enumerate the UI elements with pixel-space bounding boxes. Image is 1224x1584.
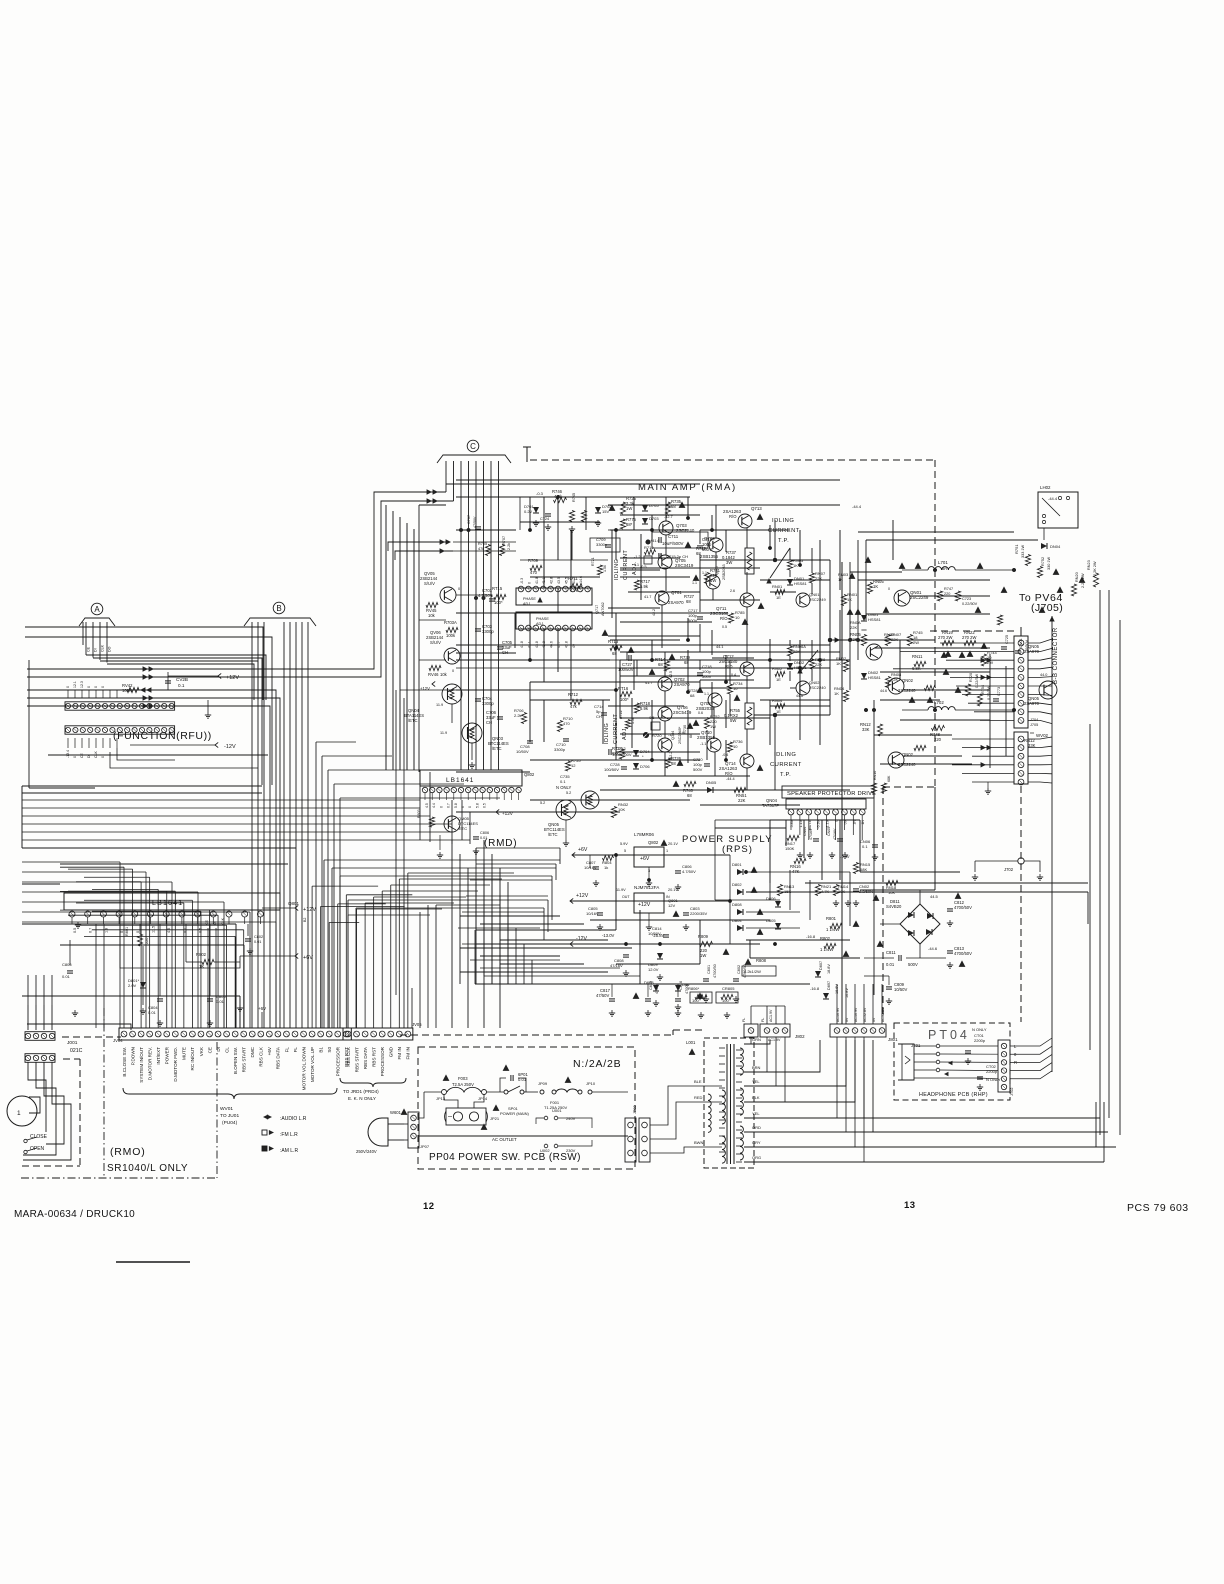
resistor R707B 47k [485,545,490,556]
inductor L701 [928,567,955,570]
dashed transformer box [704,1038,754,1168]
resistor R719 1k [645,549,656,554]
wires into WV02 [952,738,1014,740]
svg-text:/ETC: /ETC [548,832,558,837]
junction dots output [933,568,937,572]
wire left vert pair down [395,690,397,995]
output rail to L701 [830,639,935,641]
svg-text:47/50V: 47/50V [596,993,609,998]
diode D705 [642,505,648,511]
diode DN02 HSS81 [861,673,867,679]
svg-text:R707: R707 [502,536,506,545]
svg-text:D801: D801 [732,862,742,867]
resistor R706 2.2k [521,713,526,724]
svg-text:POWER: POWER [165,1046,170,1064]
diode DN04 [1041,543,1047,549]
brace WV01 [123,1088,337,1099]
bus wire B-B left [989,654,991,768]
svg-text:-13.4: -13.4 [66,750,70,758]
capacitor C707 47/50V [475,526,481,528]
resistor RV42 100K [127,687,139,692]
svg-text:44.6: 44.6 [796,694,803,698]
wire long horiz y876 [340,875,552,877]
svg-text:1K: 1K [793,563,798,568]
svg-text:10K: 10K [618,807,625,812]
svg-text:-44.4: -44.4 [1048,496,1058,501]
transistor QN01 2SC2249 [894,590,910,606]
svg-text:0.6: 0.6 [698,711,703,715]
resistor RN02 1E [775,671,785,676]
connector J001 row1 [25,1032,55,1041]
resistor R802 1K [202,959,214,964]
svg-text:N ONLY: N ONLY [986,1077,1001,1082]
svg-text:100*: 100* [620,697,629,702]
svg-text:1E: 1E [776,677,781,682]
transformer T801 core [726,1044,728,1164]
resistor R740 68 [684,781,696,786]
svg-text:/ETC: /ETC [408,718,418,723]
svg-text:68K: 68K [860,867,867,872]
zener D809 12.0V [657,953,663,959]
node A [91,603,103,615]
resistor RN12 33K [914,745,926,750]
svg-text:12.1: 12.1 [73,681,77,688]
svg-text:3300p: 3300p [482,701,494,706]
trimmer box R720 [651,722,660,730]
svg-text:R801: R801 [826,916,837,921]
svg-text:CV2B: CV2B [176,677,188,682]
svg-text:1.1V: 1.1V [799,819,803,827]
svg-text:J001: J001 [67,1040,78,1046]
svg-text:JP07: JP07 [420,1144,430,1149]
svg-text:D705: D705 [649,503,659,508]
mechanism motor circle [7,1096,37,1126]
svg-text:NJM7812FA: NJM7812FA [634,885,660,890]
capacitor C708 10/50V [527,740,533,742]
svg-text:2W: 2W [913,640,919,645]
svg-text:100: 100 [722,998,729,1003]
transistor Q701 2SA970 [655,591,669,605]
svg-text:J702: J702 [1004,867,1014,872]
svg-text:ORD: ORD [752,1125,761,1130]
svg-text:/ETC: /ETC [492,746,502,751]
svg-text:0: 0 [452,669,454,673]
svg-text:4700/50V: 4700/50V [954,905,972,910]
svg-text:+6V: +6V [258,1006,266,1011]
jumper J702 [1018,858,1024,864]
svg-text:68: 68 [671,761,676,766]
svg-text:4700p: 4700p [655,983,659,994]
svg-text:0.22/50V: 0.22/50V [962,602,978,606]
resistor R752 220 1W [704,718,709,729]
resistor RN10 68K pair [871,783,876,793]
svg-text:L78MR06: L78MR06 [634,832,654,837]
resistor R775 68 [620,519,625,529]
transistor Q708 2SB2033 [708,693,722,707]
svg-text:RBS RST: RBS RST [371,1047,376,1067]
transistor Q710 2SB1355 [707,738,721,752]
svg-text:(J705): (J705) [1031,602,1063,614]
resistor RN23 2.2K 2W [1093,573,1098,587]
svg-text:2SC2240: 2SC2240 [898,762,916,767]
diode D704 [633,750,639,756]
wire amp left frame [418,505,420,772]
svg-text:D.MOTOR REV.: D.MOTOR REV. [147,1047,152,1080]
svg-text:N:/2A/2B: N:/2A/2B [573,1058,621,1070]
svg-text:240V: 240V [566,1116,576,1121]
wire bus y690 [27,690,276,1028]
resistor R712 47k [570,699,582,704]
connector JT02 [998,1040,1010,1092]
transistor Q706 2SC5419 [658,707,672,721]
svg-text:0.01: 0.01 [216,999,225,1004]
svg-text:(PU04): (PU04) [222,1120,238,1126]
resistor R703A 100k [446,627,458,632]
svg-text:HEADPHONE PCB (RHP): HEADPHONE PCB (RHP) [919,1092,988,1098]
resistor R736 10 [727,742,732,752]
wire stubs power supply [615,855,617,930]
svg-text:0.01: 0.01 [886,962,895,967]
capacitor C727 100/50V [628,655,630,661]
svg-text:10/16V: 10/16V [586,911,599,916]
wire left extra horizontals [22,785,262,787]
svg-text:(RMO): (RMO) [110,1146,146,1158]
wires into JV04 strip [123,867,125,1028]
svg-text:5.2: 5.2 [566,791,571,795]
svg-text:22K: 22K [891,637,898,642]
svg-text:22K: 22K [738,798,746,803]
jack contacts [936,1044,940,1048]
svg-text:43.5: 43.5 [557,577,561,584]
transistor Q702 2SA970 lower [658,677,672,691]
transistor QN05 BTC114ES [556,800,576,820]
svg-text:RN01: RN01 [772,584,783,589]
svg-text:0.2V: 0.2V [524,509,533,514]
rail y883 [805,882,1088,884]
resistor R751 220 1W [704,573,709,584]
resistor R745 pair [569,511,574,522]
svg-text:11.9V: 11.9V [616,888,626,892]
svg-text:4.5: 4.5 [167,928,171,933]
dashed box PP04 [418,1047,635,1169]
svg-text:44.0: 44.0 [1040,673,1047,677]
svg-text:2200/35V: 2200/35V [690,911,707,916]
svg-text:TA7317P: TA7317P [762,803,779,808]
fuse F001 T1.25A 250V [552,1090,556,1094]
svg-text:42.8: 42.8 [550,577,554,584]
resistor RN08 22K b [809,659,814,669]
svg-text:-42.2: -42.2 [669,752,673,760]
svg-text:44.5: 44.5 [930,894,939,899]
wire pair to amp y542 [388,542,446,551]
wire bus y698 [27,698,280,1028]
brace TO JRD1 [340,1078,406,1087]
wires JT02 to bus [1010,1038,1052,1046]
svg-text:5: 5 [624,849,626,853]
wire PS verticals extra [475,848,477,930]
svg-text:10/50V: 10/50V [648,931,661,936]
svg-text:D703: D703 [649,516,659,521]
svg-text:CLK: CLK [101,644,105,652]
svg-text:MUTE: MUTE [182,1047,187,1060]
resistor RN08 22K [885,677,890,688]
connector JV05 [343,1028,413,1040]
svg-text:R705: R705 [478,542,487,546]
wire amp to strip x436 [435,905,437,1028]
transistor QN05b 2SA970 [1039,681,1057,699]
resistor R717 5.9k [634,580,639,590]
svg-text:2SB2033: 2SB2033 [722,564,726,580]
transformer secondary winding 3 [740,1126,743,1160]
wires transformer primary [650,1086,722,1125]
svg-text:22K: 22K [850,625,857,630]
resistor R809 220 1W [700,941,713,946]
svg-text:4.7K: 4.7K [821,889,830,894]
svg-text:Q802: Q802 [648,840,659,845]
svg-text:RBS START: RBS START [354,1047,359,1073]
svg-text:0.01: 0.01 [480,836,487,840]
svg-text:DI: DI [94,648,98,652]
transistor Q709 2SB1355 [709,538,723,552]
svg-text:0: 0 [527,582,531,584]
svg-text:2SC2249*: 2SC2249* [678,726,682,744]
triangle markers right bus [847,608,854,614]
dash boundary J001 [62,1036,121,1038]
svg-text:+12V: +12V [576,893,589,899]
svg-text:4700/50: 4700/50 [713,964,717,978]
wire PS extra rails [476,847,560,849]
svg-text:R808: R808 [756,958,767,963]
svg-text:0.7: 0.7 [447,803,451,808]
capacitor CV2B 0.1 [165,680,171,682]
wire bottom rail [475,983,810,985]
resistor RV45 10k [426,602,438,607]
resistor R752 330 1W [1037,567,1042,578]
wire diag bundle lower left [22,861,120,863]
svg-text:0.5: 0.5 [483,803,487,808]
wire function right frame [261,700,263,785]
capacitor C711 10uF/500V [658,537,660,543]
wire left extra verticals [235,924,237,1028]
svg-text:BRN: BRN [752,1065,761,1070]
svg-text:(RPS): (RPS) [722,844,753,855]
wire amp stubs extra [665,497,667,521]
svg-text:22K: 22K [815,576,822,581]
svg-text:1E: 1E [884,637,889,642]
svg-text:500V: 500V [908,962,918,967]
transformer secondary winding 2 [740,1088,743,1115]
svg-text:R752: R752 [1041,557,1045,566]
svg-text:-12V: -12V [576,936,587,942]
resistor RN22 270 2W [964,640,976,645]
svg-text::AM L.R: :AM L.R [280,1148,298,1154]
svg-text:RBS START: RBS START [242,1047,247,1073]
wire QN04 pins down [790,815,792,830]
wire verticals x386-414 [385,505,387,770]
capacitor C812 4700/50V [947,908,953,910]
wire U001 link [568,1118,592,1128]
legend AUDIO L.R [267,1114,272,1119]
wire bundle under amp [451,840,453,1028]
wire To PV64 vertical [1051,624,1053,1072]
svg-text:WV02: WV02 [1036,733,1049,738]
svg-text:20.1V: 20.1V [668,842,678,846]
svg-text:S/U/V: S/U/V [430,640,441,645]
resistor R726 68 [665,758,670,768]
grounds -12V [625,970,627,973]
svg-text:MOTOR VOL.DOWN: MOTOR VOL.DOWN [301,1047,306,1090]
svg-text:PCS 79 603: PCS 79 603 [1127,1202,1189,1214]
transistor Q714 2SA1263 lower [740,754,754,768]
svg-text:R/O: R/O [720,616,728,621]
+12V arrow LB [295,905,298,910]
svg-text:CE: CE [87,646,91,652]
svg-text:2SC3419: 2SC3419 [675,563,694,568]
wire GRN short [744,1040,770,1044]
resistor R720 group right [965,684,970,696]
svg-text:-44.4: -44.4 [726,777,735,781]
wire riser x548 [543,908,545,940]
svg-text:RBS CLK: RBS CLK [259,1046,264,1067]
svg-text:2200p: 2200p [974,1038,986,1043]
wire RFU lower links [117,748,175,760]
transformer extra turns [719,1047,725,1049]
svg-text:1: 1 [666,849,668,853]
resistor R746 4.7k [554,497,567,502]
svg-text:0.1: 0.1 [178,683,185,688]
svg-text:1.1: 1.1 [704,692,709,696]
svg-text:J802: J802 [795,1034,805,1039]
svg-text:100/50V: 100/50V [604,767,619,772]
wire bundle B [251,622,253,1028]
svg-text:10: 10 [735,615,740,620]
svg-text:RN23: RN23 [1087,560,1091,570]
connector JP02 dual [625,1118,636,1162]
svg-text:PHASE: PHASE [536,617,549,621]
svg-text:1W: 1W [626,506,632,511]
svg-text:0: 0 [136,931,140,933]
svg-text:INT/EXT: INT/EXT [156,1047,161,1065]
wire horizontals under amp [460,915,560,917]
capacitor C719 100p 500V [697,545,703,547]
svg-text:500V: 500V [702,674,712,679]
connector JP07 [408,1112,419,1148]
resistor R748 220 [932,725,945,730]
svg-text:4.5: 4.5 [425,803,429,808]
wires speaker protector [769,828,771,883]
+12V arrow RFU [218,673,221,678]
svg-text:021C: 021C [70,1048,83,1054]
svg-text:D802: D802 [732,882,742,887]
svg-text:10K: 10K [888,890,895,895]
wire right bus to J801 [849,1004,851,1006]
resistor RN06A 22K [787,646,792,656]
wire stubs main amp vertical [529,497,531,530]
svg-text:S0: S0 [327,1047,332,1053]
pins LB1641 left [69,911,75,917]
svg-text:VKK: VKK [199,1046,204,1056]
svg-text:44.1: 44.1 [716,645,723,649]
AC outlet [446,1108,486,1125]
svg-text:220: 220 [934,737,942,742]
-12V arrow RFU [215,742,218,747]
connector WV02 [1014,732,1028,784]
resistor R751 333 1W [1025,555,1030,566]
capacitor C805 0.01 [207,998,213,1000]
svg-text:R719: R719 [644,545,654,550]
capacitor C802b [733,978,739,980]
resistor R710 470 [557,721,562,732]
resistor R715 100 [494,594,506,599]
svg-text:RN11: RN11 [912,654,923,659]
svg-text:D.MOTOR FWD.: D.MOTOR FWD. [173,1047,178,1082]
svg-text:CH: CH [596,714,602,719]
svg-text:D806: D806 [766,896,776,901]
svg-text:5W: 5W [730,718,736,723]
capacitor CN06 0.1 [872,844,878,846]
resistor R804 1K [603,855,614,860]
resistor RN51 22K [734,787,746,792]
svg-text:+12V: +12V [303,907,316,913]
svg-text:FM IN: FM IN [406,1047,411,1060]
svg-text:(RMD): (RMD) [484,838,517,849]
svg-text:RC IN/OUT: RC IN/OUT [190,1047,195,1071]
svg-text:B: B [276,604,281,613]
svg-text:A: A [94,605,100,614]
svg-text:5.9V: 5.9V [620,842,628,846]
svg-text:10/50V: 10/50V [894,987,907,992]
diode D706 [633,763,639,769]
svg-text:IDLING: IDLING [774,752,796,758]
svg-text:SR1040/L ONLY: SR1040/L ONLY [107,1163,188,1174]
svg-text:-12V: -12V [224,744,236,750]
transistor Q705 2SC3419 [658,555,672,569]
wire left edge stub [21,786,23,848]
svg-text:-44.6: -44.6 [928,946,938,951]
svg-text:PROCESSOR: PROCESSOR [380,1046,385,1076]
svg-text:R/O: R/O [729,514,737,519]
capacitor CN01 10/50V [1015,650,1021,652]
wire long horiz y860 [324,859,560,861]
svg-text:100*: 100* [494,600,503,605]
capacitor C803 2200/35V [683,912,689,914]
svg-text:0: 0 [458,587,460,591]
capacitor C718 100p 500V [697,672,703,674]
idling adj rails [611,530,613,618]
svg-text:0.5: 0.5 [722,625,727,629]
svg-text:5.9k: 5.9k [640,706,649,711]
svg-text:+41.6: +41.6 [650,539,660,543]
svg-text:10: 10 [733,744,738,749]
switch OPEN [24,1150,27,1153]
svg-text:4.7/50V: 4.7/50V [478,593,493,598]
transistor Q713 2SA1263 [738,514,752,528]
svg-text:D706: D706 [640,764,650,769]
resistor RN32 10K [611,807,616,818]
svg-text:10uF/500V: 10uF/500V [662,541,684,546]
transistor Q805 top of PS [581,791,599,809]
svg-text:BWN: BWN [694,1140,703,1145]
svg-text:270 2W: 270 2W [938,635,952,640]
wire GRY ORG long rails [744,1146,1096,1148]
wire long horiz y868 [332,867,556,869]
headphone jack JT01 [898,1044,914,1080]
resistor R755 12 [565,761,570,771]
transistor QN02 2SC2240 [888,678,904,694]
svg-text:1.1V: 1.1V [826,819,830,827]
resistor R753 0.18X2 emitter [745,703,754,729]
resistor RN04 1K [843,691,848,702]
